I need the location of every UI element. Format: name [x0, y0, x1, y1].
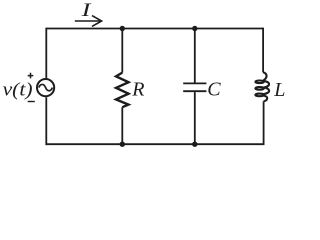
svg-text:C: C — [207, 78, 221, 100]
svg-text:R: R — [131, 78, 144, 100]
svg-text:v(t): v(t) — [3, 79, 33, 100]
svg-text:L: L — [273, 79, 285, 101]
svg-text:I: I — [80, 0, 93, 21]
